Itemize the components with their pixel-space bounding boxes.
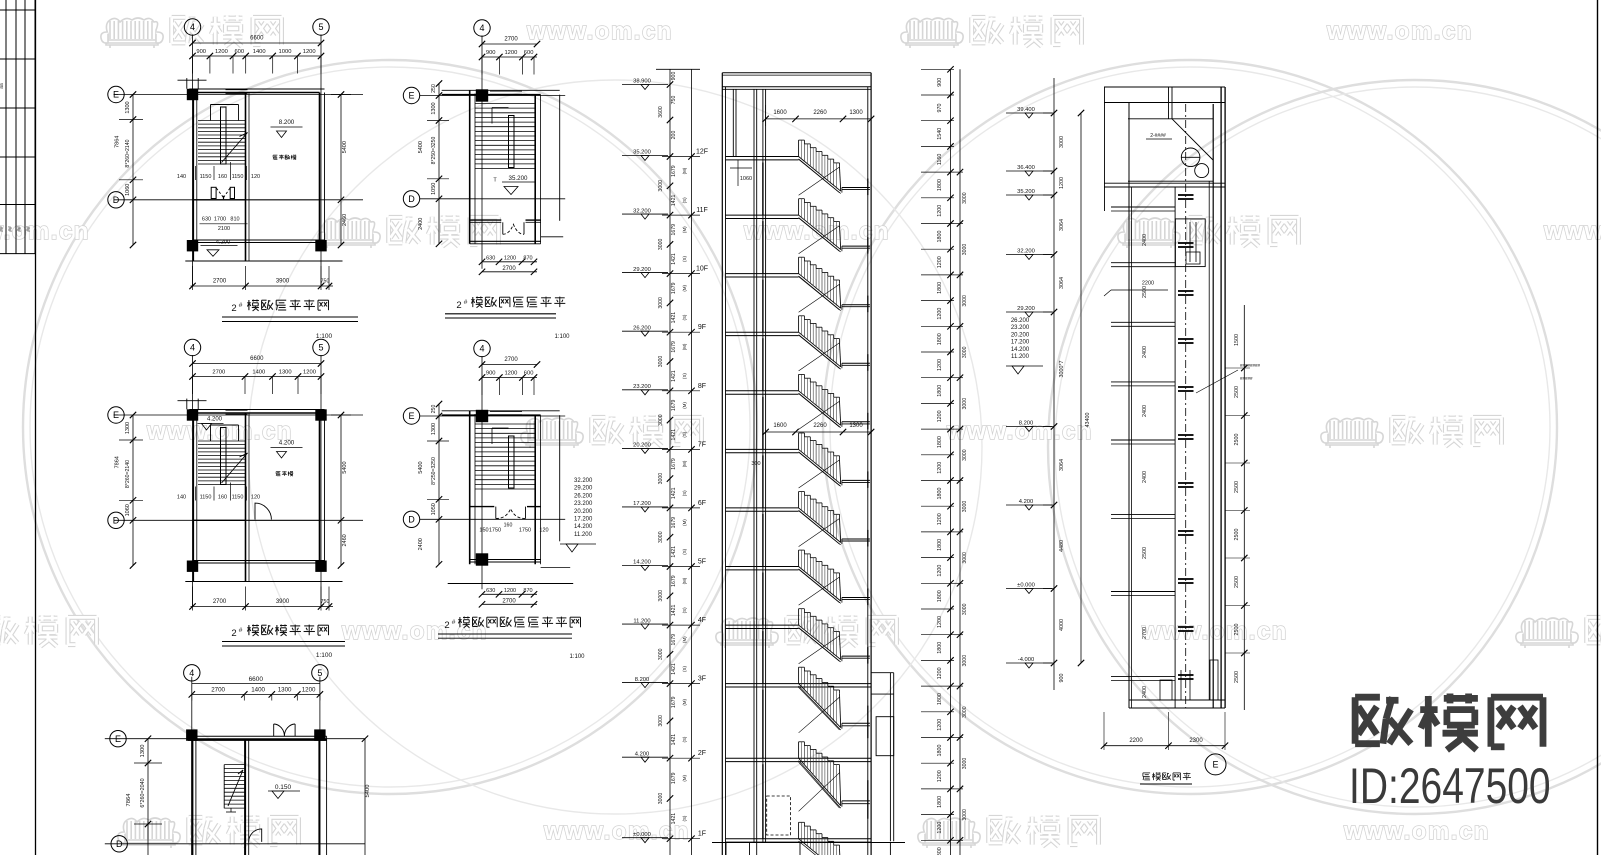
svg-text:6F: 6F (698, 500, 706, 507)
svg-text:1400: 1400 (251, 687, 265, 694)
svg-text:5400: 5400 (342, 461, 348, 473)
svg-text:250: 250 (431, 405, 437, 414)
svg-text:4: 4 (189, 668, 194, 678)
svg-text:1800: 1800 (937, 693, 943, 705)
svg-text:150: 150 (479, 527, 488, 533)
svg-text:1160: 1160 (937, 154, 943, 166)
svg-text:1200: 1200 (937, 205, 943, 217)
svg-text:(M): (M) (682, 519, 687, 526)
svg-text:www.om.cn: www.om.cn (1543, 218, 1601, 245)
svg-text:1200: 1200 (303, 370, 316, 376)
svg-text:600: 600 (524, 50, 534, 56)
svg-text:35.200: 35.200 (633, 150, 651, 156)
svg-text:D: D (408, 194, 415, 204)
svg-text:8.200: 8.200 (1019, 421, 1034, 427)
svg-text:2700: 2700 (504, 357, 518, 363)
plan: staircase 1st floor (105, 665, 371, 855)
svg-text:3000: 3000 (658, 531, 664, 543)
svg-text:1679: 1679 (671, 772, 677, 784)
svg-text:3064: 3064 (1059, 277, 1065, 289)
svg-text:1421: 1421 (671, 605, 677, 617)
svg-text:3000: 3000 (658, 414, 664, 426)
svg-text:1200: 1200 (504, 588, 516, 594)
svg-text:2400: 2400 (418, 218, 424, 230)
vertical dimension ladder (921, 66, 968, 855)
svg-text:1800: 1800 (937, 436, 943, 448)
svg-text:#: # (464, 299, 468, 306)
svg-text:3000: 3000 (962, 501, 968, 513)
svg-text:1800: 1800 (937, 590, 943, 602)
svg-text:www.om.cn: www.om.cn (341, 618, 488, 645)
svg-text:(S): (S) (682, 736, 687, 742)
svg-text:4.200: 4.200 (279, 440, 295, 447)
svg-text:(S): (S) (682, 490, 687, 496)
svg-text:140: 140 (177, 174, 186, 180)
svg-text:2: 2 (231, 303, 236, 314)
svg-text:www.om.cn: www.om.cn (1141, 618, 1288, 645)
svg-text:900: 900 (937, 78, 943, 87)
svg-text:3000: 3000 (658, 239, 664, 251)
svg-text:2400: 2400 (1142, 686, 1148, 698)
svg-text:2: 2 (456, 300, 461, 311)
svg-text:20.200: 20.200 (1011, 332, 1030, 338)
svg-text:26.200: 26.200 (574, 493, 593, 499)
svg-text:(M): (M) (682, 284, 687, 291)
svg-text:1000: 1000 (279, 49, 292, 55)
svg-text:3000: 3000 (962, 398, 968, 410)
svg-text:2700: 2700 (504, 37, 518, 43)
svg-text:14.200: 14.200 (574, 524, 593, 530)
svg-text:1421: 1421 (671, 487, 677, 499)
svg-text:7F: 7F (698, 441, 706, 448)
svg-text:2700: 2700 (212, 370, 225, 376)
svg-text:4: 4 (479, 344, 484, 354)
svg-text:43400: 43400 (1085, 413, 1091, 428)
svg-text:3000: 3000 (962, 603, 968, 615)
svg-text:3000: 3000 (962, 192, 968, 204)
svg-text:1200: 1200 (937, 667, 943, 679)
svg-text:14.200: 14.200 (633, 560, 651, 566)
svg-text:20.200: 20.200 (574, 509, 593, 515)
svg-text:1300: 1300 (125, 101, 131, 113)
svg-text:1800: 1800 (937, 179, 943, 191)
svg-text:1200: 1200 (504, 50, 517, 56)
svg-text:5400: 5400 (418, 461, 424, 473)
svg-text:(M): (M) (682, 636, 687, 643)
svg-text:2400: 2400 (1142, 234, 1148, 246)
svg-text:32.200: 32.200 (633, 208, 651, 214)
svg-text:2300: 2300 (1189, 738, 1203, 744)
svg-text:2: 2 (444, 620, 449, 631)
svg-text:4.200: 4.200 (1019, 499, 1034, 505)
svg-text:3000: 3000 (962, 552, 968, 564)
svg-text:2200: 2200 (1142, 281, 1154, 287)
plan: staircase roof (403, 20, 565, 275)
svg-text:3000: 3000 (962, 346, 968, 358)
svg-text:160: 160 (504, 522, 513, 528)
svg-text:#: # (452, 619, 456, 626)
svg-text:120: 120 (251, 174, 260, 180)
svg-text:E: E (113, 410, 119, 420)
svg-text:ID:2647500: ID:2647500 (1349, 757, 1551, 814)
svg-text:3000*7: 3000*7 (1059, 360, 1065, 377)
svg-text:2700: 2700 (502, 598, 516, 604)
svg-text:3000: 3000 (962, 809, 968, 821)
svg-text:2F: 2F (698, 750, 706, 757)
plan: staircase 3rd floor (108, 19, 363, 290)
svg-text:3000: 3000 (962, 706, 968, 718)
svg-text:12F: 12F (696, 149, 708, 156)
svg-text:8*260=2140: 8*260=2140 (125, 460, 131, 488)
svg-text:3000: 3000 (962, 295, 968, 307)
svg-text:1200: 1200 (504, 371, 517, 377)
svg-text:(M): (M) (682, 774, 687, 781)
svg-text:2500: 2500 (1234, 624, 1240, 636)
svg-text:(M): (M) (682, 343, 687, 350)
svg-text:7864: 7864 (115, 136, 121, 148)
svg-text:(M): (M) (682, 460, 687, 467)
svg-text:6*260=2040: 6*260=2040 (140, 778, 146, 807)
svg-text:1679: 1679 (671, 400, 677, 412)
svg-text:11.200: 11.200 (1011, 354, 1030, 360)
plan 3rd floor title (222, 300, 358, 341)
svg-text:1800: 1800 (937, 847, 943, 855)
svg-text:aa: aa (0, 83, 5, 89)
svg-text:1:100: 1:100 (554, 334, 570, 340)
svg-text:17.200: 17.200 (1011, 340, 1030, 346)
svg-text:4480: 4480 (1059, 540, 1065, 552)
svg-text:1800: 1800 (937, 231, 943, 243)
svg-text:1150: 1150 (200, 495, 212, 501)
svg-text:-4.000: -4.000 (1018, 657, 1034, 663)
svg-text:8*250=3250: 8*250=3250 (431, 137, 437, 165)
svg-text:#####: ##### (1240, 376, 1253, 381)
svg-text:1679: 1679 (671, 634, 677, 646)
svg-text:2500: 2500 (1142, 286, 1148, 298)
svg-text:35.200: 35.200 (509, 175, 528, 182)
svg-text:5400: 5400 (342, 141, 348, 153)
svg-text:0.150: 0.150 (275, 784, 292, 791)
svg-text:35.200: 35.200 (1017, 189, 1035, 195)
plan 4-14 title (438, 617, 585, 661)
svg-text:2500: 2500 (1234, 529, 1240, 541)
svg-text:1:100: 1:100 (316, 652, 333, 659)
svg-text:2400: 2400 (1142, 346, 1148, 358)
svg-text:2400: 2400 (1142, 471, 1148, 483)
svg-text:(S): (S) (682, 607, 687, 613)
svg-text:5: 5 (318, 343, 323, 353)
svg-text:200: 200 (671, 131, 677, 140)
svg-text:970: 970 (937, 104, 943, 113)
svg-text:(M): (M) (682, 577, 687, 584)
plan roof title (445, 297, 570, 341)
svg-text:4F: 4F (698, 617, 706, 624)
plan 2nd floor title (222, 625, 345, 660)
svg-text:3000: 3000 (962, 758, 968, 770)
svg-text:750: 750 (671, 96, 677, 105)
svg-text:##: ## (26, 226, 32, 232)
svg-text:2100: 2100 (218, 226, 230, 232)
svg-text:1050: 1050 (431, 503, 437, 515)
svg-text:5400: 5400 (365, 785, 371, 798)
svg-text:7864: 7864 (115, 456, 121, 468)
svg-text:1200: 1200 (937, 513, 943, 525)
svg-text:www.om.cn: www.om.cn (1343, 818, 1490, 845)
svg-text:39.400: 39.400 (1017, 107, 1035, 113)
svg-text:29.200: 29.200 (633, 267, 651, 273)
svg-text:1200: 1200 (937, 359, 943, 371)
svg-text:1540: 1540 (937, 128, 943, 140)
svg-text:2460: 2460 (342, 534, 348, 546)
watermark logos (101, 18, 163, 48)
svg-text:3600: 3600 (658, 106, 664, 118)
plan: staircase 2nd floor (108, 339, 363, 610)
svg-text:1200: 1200 (937, 770, 943, 782)
svg-text:1750: 1750 (519, 527, 531, 533)
svg-text:D: D (408, 515, 415, 525)
svg-text:1679: 1679 (671, 517, 677, 529)
svg-text:2260: 2260 (813, 423, 827, 429)
svg-text:1300: 1300 (125, 422, 131, 434)
svg-text:26.200: 26.200 (633, 325, 651, 331)
svg-text:300: 300 (751, 461, 760, 467)
svg-text:900: 900 (486, 371, 496, 377)
svg-text:6600: 6600 (249, 676, 264, 683)
svg-text:5: 5 (317, 668, 322, 678)
svg-text:2200: 2200 (1129, 738, 1143, 744)
svg-text:2500: 2500 (1234, 386, 1240, 398)
level marks column (1006, 78, 1091, 690)
svg-text:#: # (239, 302, 243, 309)
svg-text:4.200: 4.200 (207, 417, 223, 423)
svg-text:1421: 1421 (671, 195, 677, 207)
svg-text:www.om.cn: www.om.cn (526, 18, 673, 45)
svg-text:5F: 5F (698, 559, 706, 566)
svg-text:1200: 1200 (1059, 177, 1065, 189)
svg-text:2500: 2500 (1234, 481, 1240, 493)
svg-text:3000: 3000 (658, 590, 664, 602)
svg-text:D: D (116, 839, 123, 849)
svg-text:2460: 2460 (342, 214, 348, 226)
section: stair section drawing (622, 69, 905, 855)
svg-text:1679: 1679 (671, 696, 677, 708)
svg-text:########: ######## (1240, 363, 1261, 368)
svg-text:1300: 1300 (140, 745, 146, 758)
svg-text:(M): (M) (682, 226, 687, 233)
svg-text:1300: 1300 (431, 102, 437, 114)
svg-text:3064: 3064 (1059, 459, 1065, 471)
svg-text:3000: 3000 (962, 655, 968, 667)
svg-text:1060: 1060 (740, 176, 752, 182)
svg-text:1150: 1150 (200, 174, 212, 180)
svg-text:1800: 1800 (937, 333, 943, 345)
svg-text:1679: 1679 (671, 224, 677, 236)
svg-text:2700: 2700 (502, 266, 516, 272)
svg-text:38.900: 38.900 (633, 79, 651, 85)
svg-text:(S): (S) (682, 314, 687, 320)
svg-text:E: E (408, 411, 414, 421)
svg-text:1:100: 1:100 (569, 654, 585, 660)
svg-text:4.200: 4.200 (635, 751, 650, 757)
svg-text:2500: 2500 (1234, 671, 1240, 683)
svg-text:3000: 3000 (962, 449, 968, 461)
svg-text:1421: 1421 (671, 663, 677, 675)
svg-text:900: 900 (671, 72, 677, 81)
svg-text:600: 600 (234, 49, 244, 55)
svg-text:3000: 3000 (658, 648, 664, 660)
svg-text:20.200: 20.200 (633, 443, 651, 449)
svg-text:3000: 3000 (962, 244, 968, 256)
svg-text:1400: 1400 (252, 370, 265, 376)
svg-text:(M): (M) (682, 167, 687, 174)
svg-text:900: 900 (486, 50, 496, 56)
svg-text:4000: 4000 (1059, 619, 1065, 631)
svg-text:160: 160 (218, 174, 227, 180)
svg-text:1421: 1421 (671, 734, 677, 746)
svg-text:4: 4 (479, 23, 484, 33)
svg-text:2400: 2400 (418, 538, 424, 550)
svg-text:1200: 1200 (215, 49, 228, 55)
svg-text:E: E (408, 91, 414, 101)
svg-text:2700: 2700 (213, 279, 227, 285)
svg-text:2700: 2700 (213, 599, 227, 605)
svg-text:26.200: 26.200 (1011, 318, 1030, 324)
svg-text:(S): (S) (682, 666, 687, 672)
svg-text:1700: 1700 (214, 216, 226, 222)
svg-text:8F: 8F (698, 383, 706, 390)
svg-text:1800: 1800 (937, 642, 943, 654)
svg-text:23.200: 23.200 (633, 384, 651, 390)
svg-text:(S): (S) (682, 256, 687, 262)
svg-text:1200: 1200 (303, 49, 316, 55)
svg-text:120: 120 (251, 495, 260, 501)
svg-text:1800: 1800 (937, 539, 943, 551)
svg-text:600: 600 (524, 371, 534, 377)
riser diagram (1101, 87, 1261, 784)
svg-text:2700: 2700 (1142, 627, 1148, 639)
svg-text:29.200: 29.200 (1017, 306, 1035, 312)
svg-text:750: 750 (321, 279, 330, 285)
svg-text:1679: 1679 (671, 458, 677, 470)
svg-text:900: 900 (196, 49, 206, 55)
svg-text:1:100: 1:100 (316, 333, 333, 340)
svg-text:(M): (M) (682, 402, 687, 409)
svg-text:36.400: 36.400 (1017, 165, 1035, 171)
svg-text:750: 750 (321, 599, 330, 605)
svg-text:1600: 1600 (773, 110, 787, 116)
svg-text:3000: 3000 (658, 297, 664, 309)
svg-text:2500: 2500 (1234, 434, 1240, 446)
svg-text:1050: 1050 (431, 183, 437, 195)
svg-text:4: 4 (190, 22, 195, 32)
svg-text:6600: 6600 (250, 356, 264, 362)
svg-text:1150: 1150 (232, 495, 244, 501)
svg-text:1421: 1421 (671, 813, 677, 825)
svg-text:17.200: 17.200 (574, 517, 593, 523)
svg-text:#: # (239, 627, 243, 634)
svg-text:3000: 3000 (658, 793, 664, 805)
svg-text:160: 160 (218, 495, 227, 501)
svg-text:1300: 1300 (278, 687, 292, 694)
svg-text:120: 120 (539, 527, 548, 533)
svg-text:D: D (113, 516, 120, 526)
svg-text:11.200: 11.200 (633, 618, 650, 624)
svg-text:630: 630 (202, 216, 211, 222)
svg-text:1750: 1750 (489, 527, 501, 533)
svg-text:5400: 5400 (418, 141, 424, 153)
svg-text:±0.000: ±0.000 (633, 832, 651, 838)
svg-text:1200: 1200 (937, 410, 943, 422)
svg-text:1421: 1421 (671, 370, 677, 382)
svg-text:1800: 1800 (937, 282, 943, 294)
svg-text:(S): (S) (682, 197, 687, 203)
svg-text:6600: 6600 (250, 36, 264, 42)
svg-text:1679: 1679 (671, 282, 677, 294)
svg-text:1200: 1200 (302, 687, 316, 694)
svg-text:1800: 1800 (937, 796, 943, 808)
svg-text:D: D (113, 195, 120, 205)
svg-text:1200: 1200 (937, 822, 943, 834)
svg-text:1200: 1200 (937, 462, 943, 474)
svg-text:±0.000: ±0.000 (1017, 583, 1035, 589)
svg-text:1300: 1300 (279, 370, 292, 376)
svg-text:3000: 3000 (1059, 136, 1065, 148)
svg-text:11.200: 11.200 (574, 532, 593, 538)
svg-text:##: ## (8, 226, 14, 232)
svg-text:9F: 9F (698, 324, 706, 331)
svg-text:1200: 1200 (937, 719, 943, 731)
svg-text:1679: 1679 (671, 575, 677, 587)
svg-text:2260: 2260 (813, 110, 827, 116)
svg-text:1400: 1400 (253, 49, 266, 55)
svg-text:3900: 3900 (276, 599, 290, 605)
svg-text:1150: 1150 (232, 174, 244, 180)
svg-text:1679: 1679 (671, 165, 677, 177)
svg-text:1200: 1200 (504, 255, 516, 261)
svg-text:23.200: 23.200 (1011, 325, 1030, 331)
svg-text:1421: 1421 (671, 429, 677, 441)
svg-text:1421: 1421 (671, 312, 677, 324)
svg-text:1200: 1200 (937, 616, 943, 628)
svg-text:3900: 3900 (276, 279, 290, 285)
svg-text:630: 630 (486, 255, 495, 261)
svg-text:2500: 2500 (1142, 547, 1148, 559)
svg-text:3000: 3000 (658, 473, 664, 485)
svg-text:(S): (S) (682, 373, 687, 379)
svg-text:1060: 1060 (125, 504, 131, 516)
svg-text:29.200: 29.200 (574, 486, 593, 492)
svg-text:1300: 1300 (431, 423, 437, 435)
svg-text:250: 250 (431, 84, 437, 93)
svg-text:(S): (S) (682, 431, 687, 437)
svg-text:1200: 1200 (937, 308, 943, 320)
svg-text:8*260=2140: 8*260=2140 (125, 139, 131, 167)
svg-text:1200: 1200 (937, 256, 943, 268)
svg-text:1F: 1F (698, 831, 706, 838)
svg-text:5: 5 (318, 22, 323, 32)
svg-text:3000: 3000 (658, 356, 664, 368)
svg-text:810: 810 (230, 216, 239, 222)
svg-text:4.200: 4.200 (216, 239, 231, 245)
plan: staircase 4-14th floor (403, 340, 596, 607)
svg-text:4: 4 (190, 343, 195, 353)
svg-text:1800: 1800 (937, 745, 943, 757)
svg-text:2700: 2700 (211, 687, 225, 694)
svg-text:1679: 1679 (671, 341, 677, 353)
svg-text:(S): (S) (682, 548, 687, 554)
svg-text:17.200: 17.200 (633, 501, 651, 507)
svg-text:www.om.cn: www.om.cn (1326, 18, 1473, 45)
